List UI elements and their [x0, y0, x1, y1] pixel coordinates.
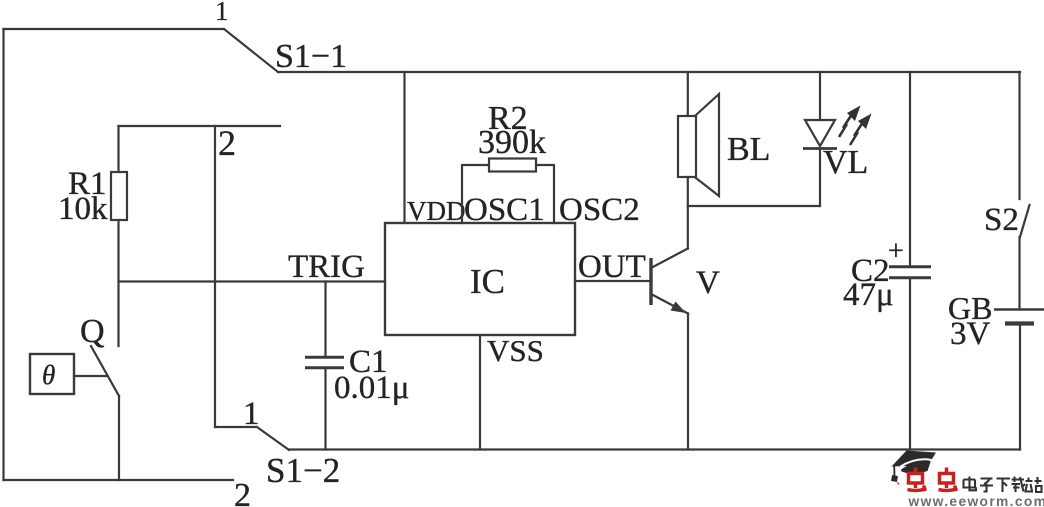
svg-text:S1−1: S1−1 — [275, 38, 347, 75]
wire vertical node2 to S1-2 — [214, 126, 216, 427]
transistor V emitter arrow — [671, 302, 687, 314]
battery GB long plate — [994, 308, 1044, 311]
LED VL light arrow 2 — [850, 122, 863, 145]
wire S1-2 contact 1 jog — [215, 426, 256, 428]
svg-text:VDD: VDD — [407, 196, 466, 226]
wire speaker top — [687, 72, 689, 116]
wire connector to VL — [688, 205, 820, 207]
wire theta box to Q blade — [74, 375, 108, 377]
wire Q bottom — [118, 396, 120, 480]
wire S1-1 contact 2 — [119, 125, 281, 127]
svg-text:VSS: VSS — [487, 333, 544, 368]
svg-text:OUT: OUT — [578, 249, 646, 285]
wire emitter to bottom bus — [687, 314, 689, 450]
switch S1-2 blade — [257, 427, 289, 450]
svg-text:47μ: 47μ — [843, 277, 894, 313]
thermal sensor box — [30, 354, 74, 394]
svg-text:2: 2 — [234, 477, 251, 507]
svg-text:OSC1: OSC1 — [464, 192, 545, 228]
logo chongchong char 2 — [939, 468, 957, 492]
transistor V base bar — [649, 258, 652, 305]
svg-text:θ: θ — [42, 360, 55, 390]
wire VL bottom — [819, 149, 821, 206]
wire VL top — [819, 72, 821, 120]
wire top main bus — [278, 71, 1020, 73]
wire C2 bottom — [909, 279, 911, 450]
wire C1 bottom — [324, 369, 326, 450]
svg-text:VL: VL — [823, 144, 868, 181]
transistor V collector — [651, 249, 688, 269]
wire bottom main bus — [289, 448, 1020, 450]
logo chongchong char 1 — [908, 468, 926, 492]
wire OSC1 pin — [462, 165, 489, 223]
svg-text:1: 1 — [215, 0, 229, 26]
wire speaker bottom to collector — [687, 177, 689, 249]
op IC box U1 — [385, 223, 575, 335]
battery GB short plate — [1005, 321, 1034, 325]
svg-text:V: V — [696, 265, 720, 301]
wire TRIG — [119, 280, 386, 282]
svg-text:S1−2: S1−2 — [266, 451, 340, 490]
wire C1 top — [324, 282, 326, 357]
capacitor C1 — [305, 357, 344, 368]
wire S2 bottom — [1018, 237, 1020, 308]
wire battery bottom — [1019, 326, 1021, 450]
wire C2 top — [909, 72, 911, 265]
wire S2 top — [1018, 72, 1020, 199]
wire top-left horizontal — [4, 28, 225, 30]
switch Q blade — [91, 346, 119, 396]
logo text dianzi xiazaizhan — [964, 477, 1042, 493]
logo graduation cap — [891, 451, 936, 485]
switch S1-1 blade — [224, 29, 278, 72]
LED VL light arrow 1 — [839, 114, 852, 137]
svg-text:TRIG: TRIG — [288, 249, 365, 285]
wire OSC2 pin — [536, 165, 554, 223]
svg-text:OSC2: OSC2 — [559, 192, 640, 228]
svg-text:2: 2 — [218, 123, 236, 163]
svg-text:IC: IC — [470, 262, 505, 301]
wire OUT — [575, 280, 650, 282]
svg-text:10k: 10k — [58, 191, 108, 227]
wire R1 bottom to Q contact — [117, 220, 119, 346]
svg-text:www.eeworm.com: www.eeworm.com — [908, 494, 1044, 507]
wire left vertical — [2, 29, 4, 480]
svg-text:3V: 3V — [950, 316, 991, 352]
wire bottom-left (S1-2 contact 2) — [4, 479, 234, 481]
svg-text:+: + — [888, 236, 904, 267]
switch S2 blade — [1020, 205, 1030, 237]
speaker BL — [678, 116, 696, 177]
svg-text:390k: 390k — [478, 124, 546, 161]
LED VL cathode bar — [803, 147, 837, 150]
capacitor C2 — [889, 267, 931, 278]
resistor R2 — [489, 159, 536, 172]
wire R1 top — [117, 126, 119, 172]
wire VSS pin — [479, 335, 481, 450]
svg-text:BL: BL — [727, 131, 770, 168]
svg-text:S2: S2 — [984, 202, 1019, 238]
LED VL triangle — [805, 120, 835, 146]
wire VDD pin — [403, 72, 405, 223]
transistor V emitter — [651, 294, 688, 314]
svg-text:0.01μ: 0.01μ — [334, 370, 409, 406]
resistor R1 — [111, 172, 127, 220]
svg-text:Q: Q — [80, 313, 105, 350]
